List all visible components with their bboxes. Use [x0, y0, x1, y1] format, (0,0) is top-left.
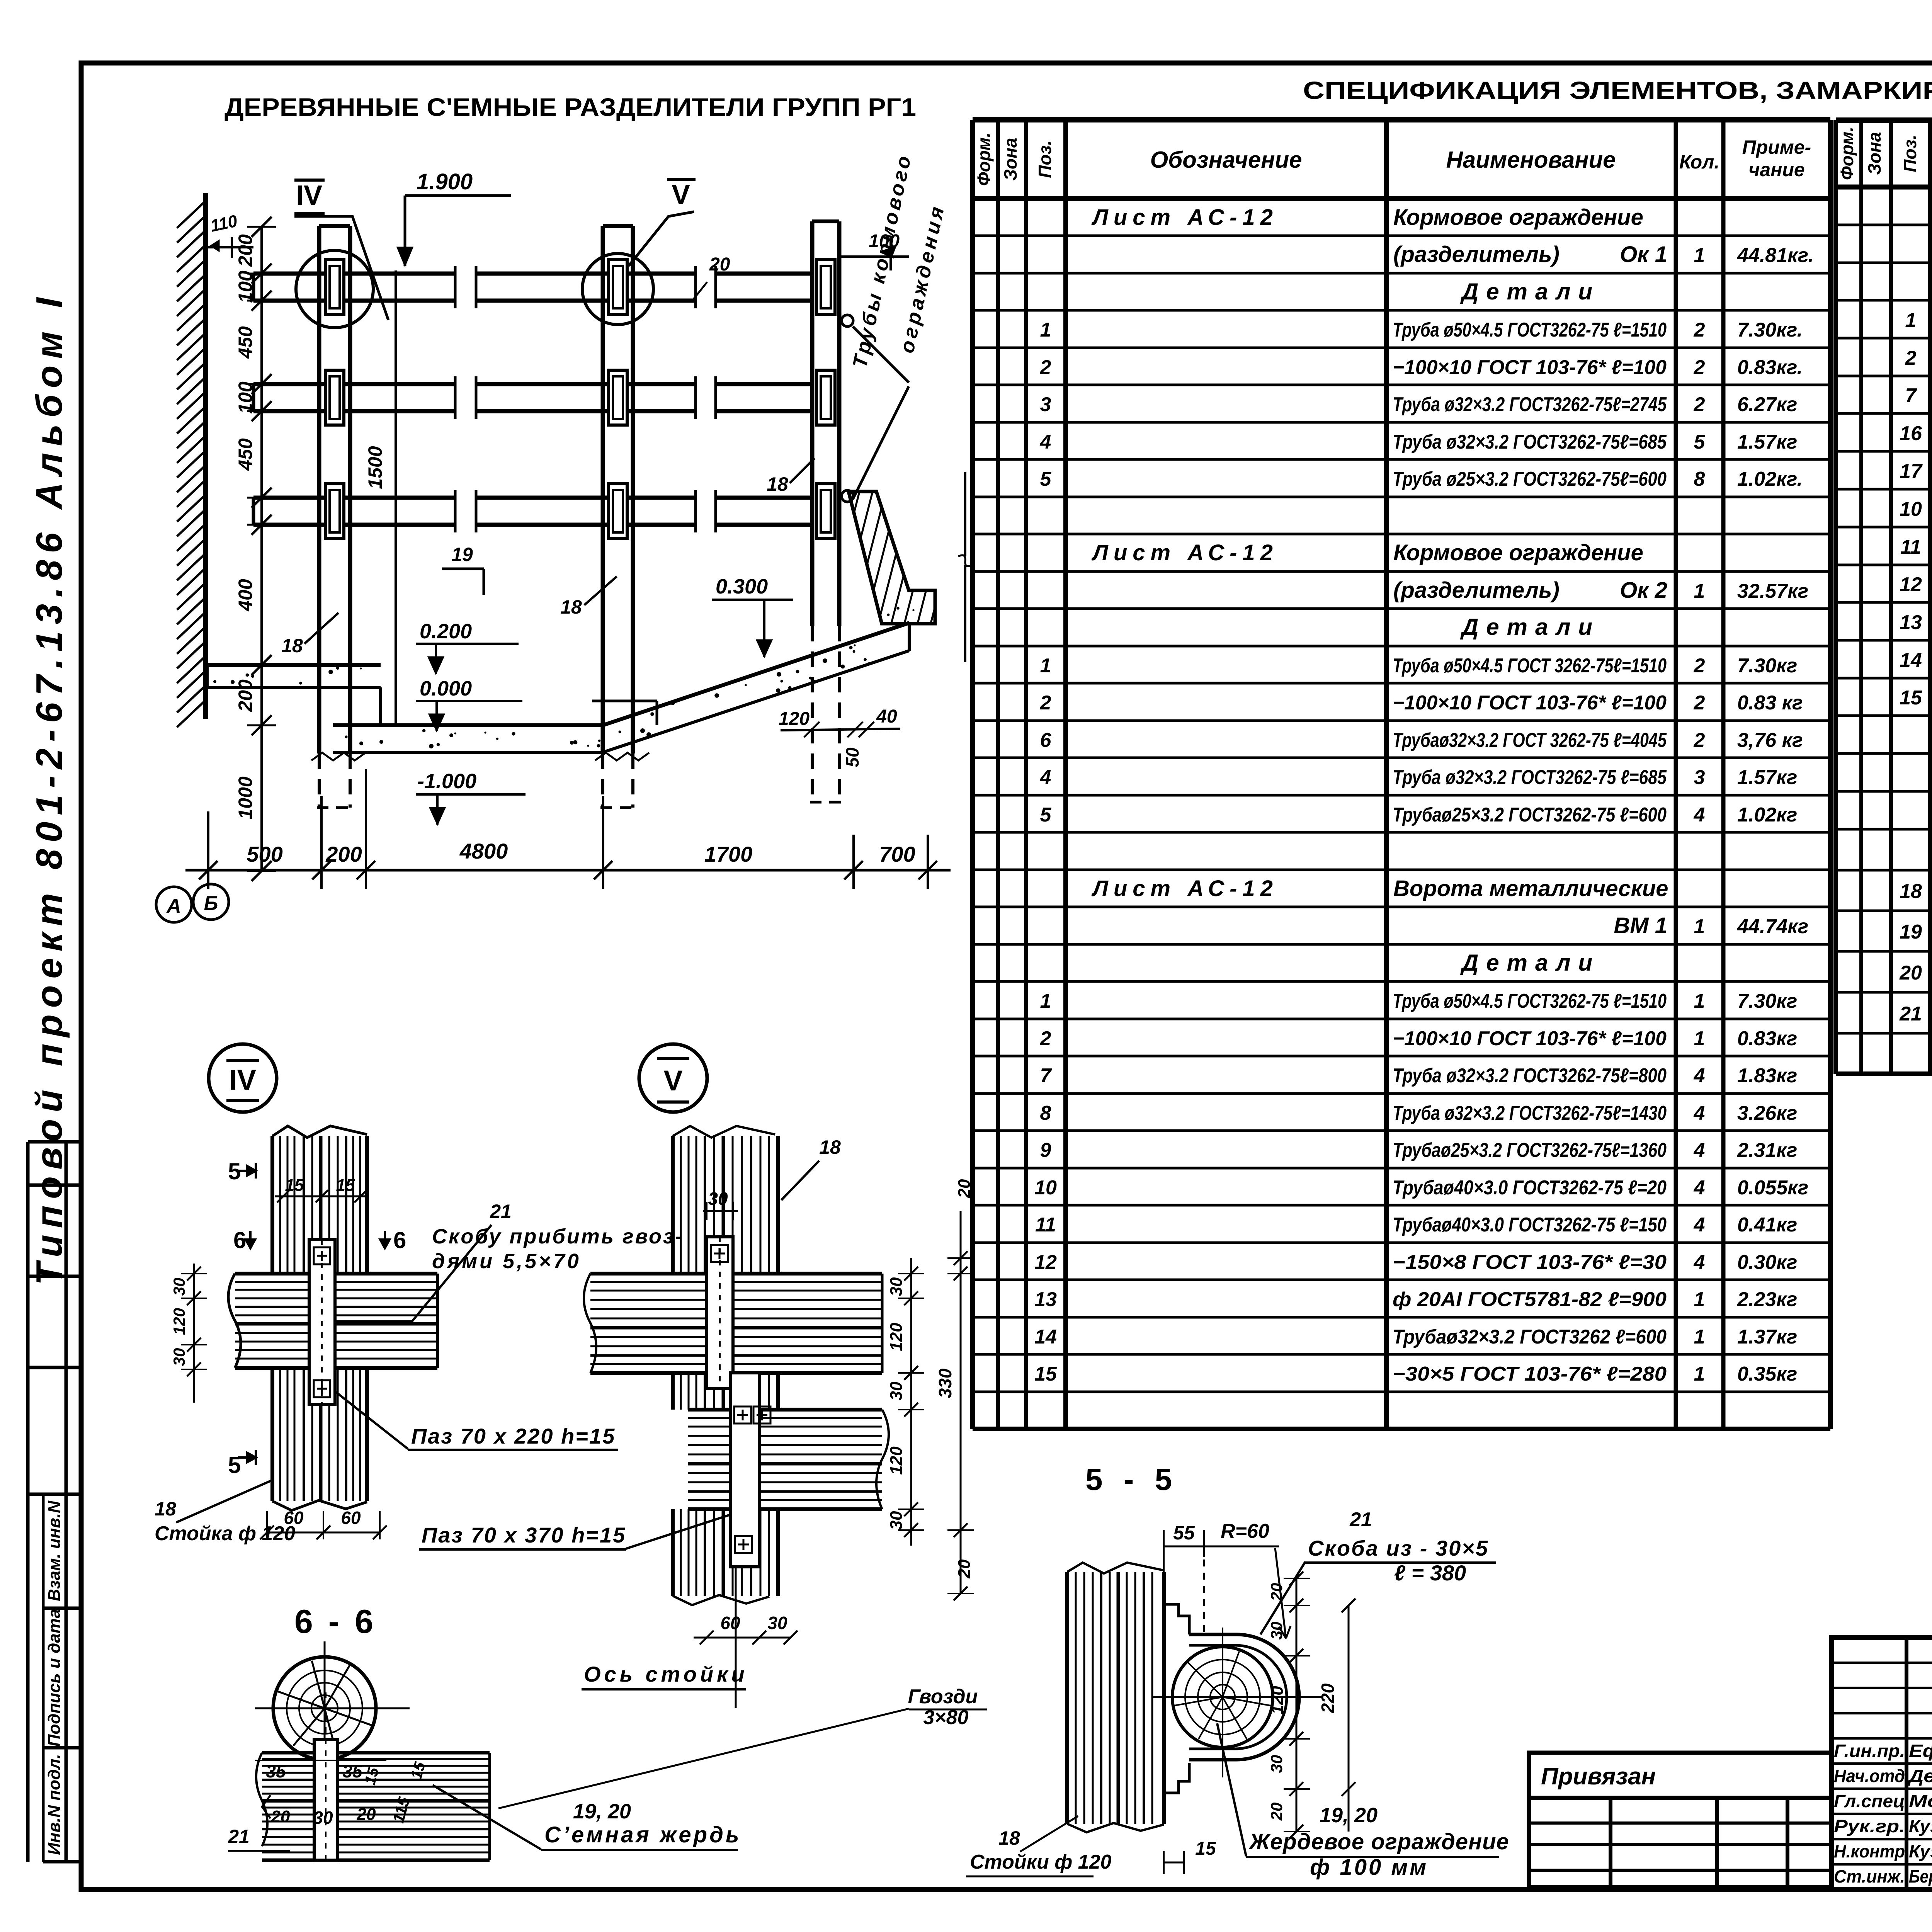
svg-text:11: 11 — [1900, 536, 1921, 558]
section 5-5 right dim chain — [1296, 1578, 1298, 1832]
svg-text:19, 20: 19, 20 — [573, 1800, 631, 1823]
svg-text:19: 19 — [1900, 921, 1922, 943]
svg-text:200: 200 — [235, 234, 256, 267]
svg-text:1: 1 — [1694, 1288, 1705, 1311]
svg-text:Труба ø32×3.2 ГОСТ3262-75ℓ=685: Труба ø32×3.2 ГОСТ3262-75ℓ=685 — [1393, 431, 1667, 453]
svg-text:9: 9 — [1040, 1139, 1051, 1162]
svg-text:Паз 70 х 220 h=15: Паз 70 х 220 h=15 — [411, 1424, 616, 1448]
detail V slot plates — [707, 1237, 733, 1389]
svg-text:Ось стойки: Ось стойки — [584, 1662, 748, 1686]
svg-text:ВМ 1: ВМ 1 — [1614, 913, 1667, 938]
svg-text:1: 1 — [1694, 915, 1705, 938]
truba dots at post 3 — [842, 315, 853, 327]
svg-text:Трубаø32×3.2 ГОСТ 3262-75 ℓ=40: Трубаø32×3.2 ГОСТ 3262-75 ℓ=4045 — [1393, 729, 1667, 752]
svg-text:-1.000: -1.000 — [417, 770, 476, 793]
section 6-6 rails — [262, 1751, 314, 1755]
svg-text:ф 20АІ ГОСТ5781-82 ℓ=900: ф 20АІ ГОСТ5781-82 ℓ=900 — [1393, 1288, 1667, 1311]
svg-text:30: 30 — [708, 1189, 728, 1209]
svg-text:Кормовое ограждение: Кормовое ограждение — [1393, 205, 1643, 230]
svg-text:20: 20 — [1267, 1583, 1286, 1602]
svg-text:0.000: 0.000 — [420, 677, 472, 700]
svg-text:1.37кг: 1.37кг — [1737, 1326, 1797, 1348]
svg-text:Лист АС-12: Лист АС-12 — [1091, 876, 1278, 901]
svg-text:14: 14 — [1900, 649, 1922, 672]
svg-text:4: 4 — [1694, 1177, 1705, 1199]
post 3 right — [810, 221, 815, 626]
svg-text:Типовой проект 801-2-67.13.: Типовой проект 801-2-67.13.86 Альбом I — [29, 291, 70, 1285]
detail IV bottom dims 60 60 — [267, 1532, 380, 1534]
svg-text:2: 2 — [1905, 347, 1917, 369]
svg-text:Девочкин: Девочкин — [1907, 1766, 1932, 1786]
svg-text:44.74кг: 44.74кг — [1737, 915, 1808, 938]
svg-text:1: 1 — [1694, 244, 1705, 267]
svg-text:4: 4 — [1694, 804, 1705, 826]
spec table 1 (sheets AC-12): outer and column lines — [973, 117, 1830, 122]
svg-text:Зона: Зона — [1864, 132, 1884, 175]
svg-text:15: 15 — [361, 1765, 382, 1787]
svg-text:11: 11 — [1035, 1214, 1056, 1236]
svg-text:Зона: Зона — [1000, 138, 1020, 180]
section 6-6 log circle — [273, 1657, 376, 1760]
svg-text:30: 30 — [1267, 1622, 1286, 1640]
section 5-5 log circle — [1172, 1647, 1273, 1747]
svg-text:Форм.: Форм. — [974, 133, 994, 186]
svg-text:1: 1 — [1905, 309, 1917, 332]
svg-text:19: 19 — [451, 544, 473, 565]
svg-text:Стойка ф 120: Стойка ф 120 — [155, 1522, 295, 1545]
svg-text:1: 1 — [1694, 990, 1705, 1012]
svg-text:Обозначение: Обозначение — [1150, 147, 1302, 173]
svg-text:15: 15 — [336, 1176, 355, 1195]
svg-text:220: 220 — [1318, 1683, 1338, 1713]
section 6-6 slot plate — [314, 1740, 338, 1860]
svg-text:V: V — [663, 1065, 682, 1097]
svg-text:13: 13 — [1900, 611, 1922, 634]
svg-text:32.57кг: 32.57кг — [1737, 580, 1808, 602]
svg-text:Кузьменко: Кузьменко — [1909, 1816, 1932, 1836]
svg-text:4800: 4800 — [459, 839, 508, 863]
svg-text:2: 2 — [1694, 319, 1705, 341]
svg-text:30: 30 — [887, 1277, 906, 1296]
svg-text:200: 200 — [235, 679, 256, 712]
svg-text:Нач.отд: Нач.отд — [1834, 1766, 1905, 1786]
svg-text:1: 1 — [1694, 1363, 1705, 1385]
svg-text:1.02кг.: 1.02кг. — [1737, 468, 1803, 490]
svg-text:0.41кг: 0.41кг — [1737, 1214, 1797, 1236]
svg-text:Трубаø25×3.2 ГОСТ3262-75ℓ=1360: Трубаø25×3.2 ГОСТ3262-75ℓ=1360 — [1393, 1139, 1667, 1162]
svg-text:2: 2 — [1694, 356, 1705, 379]
svg-text:2.31кг: 2.31кг — [1737, 1139, 1797, 1162]
bottom dimension line — [185, 869, 951, 872]
detail V rail lower — [688, 1408, 730, 1412]
svg-text:Кол.: Кол. — [1679, 151, 1719, 173]
svg-text:120: 120 — [887, 1323, 906, 1351]
svg-text:Труба ø32×3.2 ГОСТ3262-75ℓ=274: Труба ø32×3.2 ГОСТ3262-75ℓ=2745 — [1393, 393, 1667, 416]
svg-text:7.30кг: 7.30кг — [1737, 990, 1797, 1012]
title block signature columns — [1832, 1638, 1932, 1889]
svg-text:2.23кг: 2.23кг — [1737, 1288, 1797, 1311]
concrete floor slab lower + ramp up to post 3 — [333, 623, 909, 725]
svg-text:Детали: Детали — [1460, 614, 1600, 640]
svg-text:20: 20 — [955, 1179, 974, 1198]
svg-text:20: 20 — [709, 254, 730, 275]
svg-text:30: 30 — [170, 1348, 188, 1366]
svg-text:Труба ø50×4.5 ГОСТ3262-75 ℓ=15: Труба ø50×4.5 ГОСТ3262-75 ℓ=1510 — [1393, 319, 1667, 341]
svg-text:400: 400 — [235, 579, 256, 612]
section 5-5 post (vertical log in plan) — [1065, 1572, 1069, 1824]
svg-text:Лист АС-12: Лист АС-12 — [1091, 540, 1278, 565]
detail V post — [671, 1136, 675, 1274]
svg-text:−100×10 ГОСТ 103-76* ℓ=100: −100×10 ГОСТ 103-76* ℓ=100 — [1393, 356, 1667, 379]
svg-text:R=60: R=60 — [1221, 1520, 1269, 1543]
detail IV rail (horizontal log) — [235, 1272, 309, 1276]
svg-text:Инв.N подл.: Инв.N подл. — [45, 1754, 64, 1855]
svg-text:Н.контр: Н.контр — [1834, 1841, 1905, 1861]
svg-text:4: 4 — [1040, 431, 1051, 453]
svg-text:3.26кг: 3.26кг — [1737, 1102, 1797, 1124]
svg-text:Рук.гр.: Рук.гр. — [1834, 1816, 1905, 1836]
svg-text:Труба ø32×3.2 ГОСТ3262-75ℓ=143: Труба ø32×3.2 ГОСТ3262-75ℓ=1430 — [1393, 1102, 1667, 1124]
svg-text:35: 35 — [266, 1761, 286, 1781]
spec table 2 (sheets AC-12/AC-13): row lines — [1836, 224, 1932, 226]
svg-text:450: 450 — [235, 326, 256, 359]
svg-text:20: 20 — [1267, 1803, 1286, 1821]
svg-text:4: 4 — [1040, 766, 1051, 789]
spec table 1 (sheets AC-12): row lines — [973, 235, 1830, 237]
svg-text:21: 21 — [1899, 1003, 1922, 1025]
svg-text:7.30кг: 7.30кг — [1737, 655, 1797, 677]
svg-text:7: 7 — [1905, 384, 1917, 407]
svg-text:18: 18 — [1900, 880, 1922, 903]
svg-text:ДЕРЕВЯННЫЕ С'ЕМНЫЕ РАЗДЕЛИТЕ: ДЕРЕВЯННЫЕ С'ЕМНЫЕ РАЗДЕЛИТЕЛИ ГРУПП РГ1 — [224, 93, 916, 121]
svg-text:4: 4 — [1694, 1065, 1705, 1087]
svg-text:15: 15 — [1900, 687, 1922, 709]
svg-text:35: 35 — [342, 1761, 363, 1781]
axis circles A B — [156, 887, 192, 922]
svg-text:21: 21 — [490, 1201, 512, 1222]
svg-text:Скоба из - 30×5: Скоба из - 30×5 — [1308, 1536, 1489, 1560]
svg-text:8: 8 — [1040, 1102, 1051, 1124]
svg-text:Детали: Детали — [1460, 279, 1600, 304]
svg-text:16: 16 — [1900, 422, 1922, 445]
svg-text:IV: IV — [229, 1064, 256, 1096]
svg-text:Лист АС-12: Лист АС-12 — [1091, 205, 1278, 230]
svg-text:1000: 1000 — [235, 776, 256, 819]
svg-text:40: 40 — [876, 706, 897, 727]
svg-text:0.83 кг: 0.83 кг — [1737, 692, 1803, 714]
svg-text:Поз.: Поз. — [1035, 140, 1055, 178]
svg-text:Труба ø25×3.2 ГОСТ3262-75ℓ=600: Труба ø25×3.2 ГОСТ3262-75ℓ=600 — [1393, 468, 1667, 490]
svg-text:0.200: 0.200 — [420, 620, 472, 643]
svg-text:7.30кг.: 7.30кг. — [1737, 319, 1803, 341]
svg-text:450: 450 — [235, 438, 256, 471]
svg-text:100: 100 — [235, 381, 256, 414]
svg-text:−30×5 ГОСТ 103-76* ℓ=280: −30×5 ГОСТ 103-76* ℓ=280 — [1393, 1363, 1667, 1385]
concrete floor slab upper — [207, 663, 381, 667]
svg-text:1: 1 — [1040, 655, 1051, 677]
svg-text:1.57кг: 1.57кг — [1737, 766, 1797, 789]
svg-text:20: 20 — [1899, 962, 1922, 984]
svg-text:Поз.: Поз. — [1900, 134, 1920, 172]
svg-text:6 - 6: 6 - 6 — [294, 1603, 376, 1640]
svg-text:1.02кг: 1.02кг — [1737, 804, 1797, 826]
svg-text:44.81кг.: 44.81кг. — [1737, 244, 1814, 267]
svg-text:Кормовое ограждение: Кормовое ограждение — [1393, 540, 1643, 565]
section 5-5 bracket tabs — [1164, 1604, 1189, 1634]
svg-text:10: 10 — [1034, 1177, 1057, 1199]
wall with hatching — [203, 193, 208, 719]
svg-text:Труба ø50×4.5 ГОСТ 3262-75ℓ=15: Труба ø50×4.5 ГОСТ 3262-75ℓ=1510 — [1393, 655, 1667, 677]
detail circle V on post 2 — [582, 253, 653, 325]
svg-text:0.055кг: 0.055кг — [1737, 1177, 1808, 1199]
svg-text:(разделитель): (разделитель) — [1393, 242, 1560, 267]
svg-text:Трубаø25×3.2 ГОСТ3262-75 ℓ=600: Трубаø25×3.2 ГОСТ3262-75 ℓ=600 — [1393, 804, 1667, 826]
svg-text:15: 15 — [1195, 1838, 1216, 1859]
svg-text:−100×10 ГОСТ 103-76* ℓ=100: −100×10 ГОСТ 103-76* ℓ=100 — [1393, 1027, 1667, 1050]
inner dim 1500 — [395, 270, 397, 726]
svg-text:С’емная жердь: С’емная жердь — [544, 1822, 741, 1847]
left margin inventory boxes — [26, 1142, 30, 1862]
svg-text:5 - 5: 5 - 5 — [1085, 1462, 1178, 1497]
svg-text:Взам. инв.N: Взам. инв.N — [45, 1500, 64, 1601]
svg-text:СПЕЦИФИКАЦИЯ ЭЛЕМЕНТОВ, ЗАМ: СПЕЦИФИКАЦИЯ ЭЛЕМЕНТОВ, ЗАМАРКИРОВАННЫХ … — [1303, 77, 1932, 104]
left dimension chain — [260, 227, 263, 871]
svg-text:30: 30 — [1267, 1755, 1286, 1773]
svg-text:120: 120 — [1268, 1686, 1287, 1714]
svg-text:Приме-: Приме- — [1742, 136, 1811, 158]
svg-text:12: 12 — [1900, 573, 1922, 596]
svg-text:3: 3 — [1694, 766, 1705, 789]
svg-text:30: 30 — [767, 1613, 787, 1633]
svg-text:2: 2 — [1040, 356, 1051, 379]
svg-text:Труба ø50×4.5 ГОСТ3262-75 ℓ=15: Труба ø50×4.5 ГОСТ3262-75 ℓ=1510 — [1393, 990, 1667, 1012]
svg-text:ф 100 мм: ф 100 мм — [1310, 1855, 1428, 1880]
svg-text:Гвозди: Гвозди — [908, 1685, 978, 1708]
svg-text:ℓ = 380: ℓ = 380 — [1394, 1561, 1466, 1585]
svg-text:8: 8 — [1694, 468, 1705, 490]
detail IV slot plate — [309, 1240, 335, 1405]
svg-text:−150×8 ГОСТ 103-76* ℓ=30: −150×8 ГОСТ 103-76* ℓ=30 — [1393, 1251, 1667, 1274]
svg-text:0.30кг: 0.30кг — [1737, 1251, 1797, 1274]
svg-text:330: 330 — [935, 1368, 955, 1398]
svg-text:50: 50 — [842, 747, 862, 767]
svg-text:чание: чание — [1748, 159, 1805, 180]
svg-text:1.900: 1.900 — [417, 169, 473, 194]
detail circle IV on post 1 — [296, 250, 373, 328]
svg-text:Б: Б — [204, 892, 218, 915]
svg-text:2: 2 — [1040, 1027, 1051, 1050]
svg-text:А: А — [166, 895, 181, 917]
svg-text:Мочалов: Мочалов — [1909, 1791, 1932, 1811]
detail V rail upper — [590, 1272, 707, 1276]
svg-text:30: 30 — [887, 1381, 906, 1400]
svg-text:IV: IV — [296, 180, 322, 211]
svg-text:120: 120 — [170, 1308, 188, 1335]
connector plates at post-rail joints — [325, 260, 344, 315]
svg-text:1.57кг: 1.57кг — [1737, 431, 1797, 453]
svg-text:200: 200 — [325, 842, 362, 866]
svg-text:4: 4 — [1694, 1102, 1705, 1124]
svg-text:(разделитель): (разделитель) — [1393, 578, 1560, 603]
svg-text:Стойки ф 120: Стойки ф 120 — [970, 1851, 1111, 1873]
svg-text:V: V — [672, 179, 690, 210]
svg-text:20: 20 — [271, 1807, 290, 1826]
svg-text:Детали: Детали — [1460, 950, 1600, 976]
svg-text:1: 1 — [1694, 580, 1705, 602]
svg-text:Жердевое ограждение: Жердевое ограждение — [1248, 1829, 1509, 1854]
svg-text:7: 7 — [1040, 1065, 1052, 1087]
svg-text:4: 4 — [1694, 1214, 1705, 1236]
svg-text:5: 5 — [1694, 431, 1706, 453]
svg-text:Паз 70 х 370 h=15: Паз 70 х 370 h=15 — [422, 1523, 626, 1547]
svg-text:120: 120 — [887, 1446, 906, 1475]
privyazan table — [1529, 1753, 1832, 1887]
svg-text:500: 500 — [247, 842, 282, 866]
svg-text:55: 55 — [1173, 1522, 1195, 1544]
svg-text:6: 6 — [233, 1227, 246, 1253]
svg-text:5: 5 — [228, 1452, 241, 1478]
svg-text:2: 2 — [1694, 692, 1705, 714]
svg-text:4: 4 — [1694, 1139, 1705, 1162]
svg-text:Трубаø32×3.2 ГОСТ3262 ℓ=600: Трубаø32×3.2 ГОСТ3262 ℓ=600 — [1393, 1326, 1667, 1348]
svg-text:10: 10 — [1900, 498, 1922, 520]
svg-text:15: 15 — [1034, 1363, 1057, 1385]
svg-text:−100×10 ГОСТ 103-76* ℓ=100: −100×10 ГОСТ 103-76* ℓ=100 — [1393, 692, 1667, 714]
svg-text:18: 18 — [155, 1498, 176, 1520]
svg-text:Березенцева: Березенцева — [1909, 1866, 1932, 1886]
svg-text:0.83кг.: 0.83кг. — [1737, 356, 1803, 379]
svg-text:Кузьменко: Кузьменко — [1909, 1841, 1932, 1861]
detail IV post (vertical log) — [270, 1136, 274, 1274]
svg-text:Труба ø32×3.2 ГОСТ3262-75 ℓ=68: Труба ø32×3.2 ГОСТ3262-75 ℓ=685 — [1393, 766, 1667, 789]
horizontal rails (jerdi) level 1..3 — [253, 272, 455, 276]
svg-text:1500: 1500 — [364, 446, 386, 489]
svg-text:60: 60 — [720, 1613, 740, 1633]
svg-text:2: 2 — [1694, 729, 1705, 752]
section 5-5 skoba bracket — [1189, 1634, 1299, 1760]
svg-text:12: 12 — [1034, 1251, 1057, 1274]
svg-text:2: 2 — [1694, 655, 1705, 677]
detail IV left dim chain 30 120 30 — [193, 1264, 195, 1403]
svg-text:Форм.: Форм. — [1837, 127, 1857, 180]
svg-text:1.83кг: 1.83кг — [1737, 1065, 1797, 1087]
svg-text:1: 1 — [1040, 990, 1051, 1012]
svg-text:110: 110 — [209, 211, 239, 236]
svg-text:0.83кг: 0.83кг — [1737, 1027, 1797, 1050]
detail IV label circle — [209, 1044, 277, 1112]
svg-text:18: 18 — [767, 473, 788, 495]
svg-text:18: 18 — [998, 1827, 1020, 1849]
svg-text:13: 13 — [1034, 1288, 1057, 1311]
svg-text:Трубаø40×3.0 ГОСТ3262-75 ℓ=150: Трубаø40×3.0 ГОСТ3262-75 ℓ=150 — [1393, 1214, 1667, 1236]
svg-text:60: 60 — [341, 1508, 361, 1528]
svg-text:30: 30 — [887, 1511, 906, 1530]
detail V bottom dims 60 30 — [694, 1637, 791, 1639]
svg-text:1: 1 — [1040, 319, 1051, 341]
svg-text:19, 20: 19, 20 — [1320, 1804, 1378, 1827]
svg-text:6.27кг: 6.27кг — [1737, 393, 1797, 416]
detail V label circle — [639, 1044, 707, 1112]
svg-text:Подпись и дата: Подпись и дата — [45, 1609, 64, 1747]
svg-text:18: 18 — [560, 596, 582, 618]
concrete slab bay2 mid step — [592, 700, 657, 702]
svg-text:20: 20 — [955, 1559, 974, 1578]
svg-text:Трубаø40×3.0 ГОСТ3262-75 ℓ=20: Трубаø40×3.0 ГОСТ3262-75 ℓ=20 — [1393, 1177, 1667, 1199]
svg-text:2: 2 — [1040, 692, 1051, 714]
svg-text:3: 3 — [1040, 393, 1051, 416]
svg-text:21: 21 — [228, 1826, 250, 1847]
svg-text:Труба ø32×3.2 ГОСТ3262-75ℓ=800: Труба ø32×3.2 ГОСТ3262-75ℓ=800 — [1393, 1065, 1667, 1087]
svg-text:18: 18 — [819, 1136, 841, 1158]
svg-text:6: 6 — [1040, 729, 1052, 752]
svg-text:17: 17 — [1900, 460, 1923, 483]
svg-text:Ефремов: Ефремов — [1909, 1741, 1932, 1761]
svg-text:Ок 1: Ок 1 — [1620, 242, 1667, 267]
svg-text:Привязан: Привязан — [1541, 1763, 1656, 1790]
svg-text:1: 1 — [1694, 1326, 1705, 1348]
right vertical dim at curb — [964, 472, 966, 556]
svg-text:30: 30 — [170, 1278, 188, 1296]
svg-text:Г.ин.пр.: Г.ин.пр. — [1834, 1741, 1905, 1761]
svg-text:0.35кг: 0.35кг — [1737, 1363, 1797, 1385]
posts 18 (stoiki) — [317, 226, 321, 753]
svg-text:Скобу прибить гвоз-: Скобу прибить гвоз- — [432, 1225, 684, 1248]
spec table 2 (sheets AC-12/AC-13): outer and column lines — [1836, 117, 1932, 123]
svg-text:1: 1 — [1694, 1027, 1705, 1050]
svg-text:30: 30 — [313, 1808, 333, 1828]
section 6-6 dims — [255, 1760, 386, 1761]
svg-text:Ст.инж.: Ст.инж. — [1834, 1866, 1905, 1886]
svg-text:Ворота металлические: Ворота металлические — [1393, 876, 1668, 901]
svg-text:3,76 кг: 3,76 кг — [1737, 729, 1803, 752]
svg-text:5: 5 — [1040, 468, 1052, 490]
svg-text:5: 5 — [1040, 804, 1052, 826]
svg-text:120: 120 — [779, 709, 810, 729]
svg-text:100: 100 — [235, 270, 256, 303]
svg-text:2: 2 — [1694, 393, 1705, 416]
svg-text:21: 21 — [1349, 1509, 1372, 1531]
svg-text:1700: 1700 — [704, 842, 753, 866]
svg-text:Ок 2: Ок 2 — [1620, 578, 1667, 603]
svg-text:Наименование: Наименование — [1446, 147, 1616, 173]
svg-text:18: 18 — [281, 635, 303, 656]
svg-text:6: 6 — [393, 1227, 406, 1253]
svg-text:4: 4 — [1694, 1251, 1705, 1274]
svg-text:Гл.спец: Гл.спец — [1834, 1791, 1905, 1811]
svg-text:14: 14 — [1034, 1326, 1057, 1348]
svg-text:700: 700 — [879, 842, 915, 866]
svg-text:0.300: 0.300 — [716, 575, 768, 598]
svg-text:ограждения: ограждения — [896, 202, 949, 355]
detail V right dim chain — [910, 1258, 912, 1546]
svg-text:15: 15 — [408, 1760, 429, 1781]
svg-text:20: 20 — [357, 1805, 376, 1824]
